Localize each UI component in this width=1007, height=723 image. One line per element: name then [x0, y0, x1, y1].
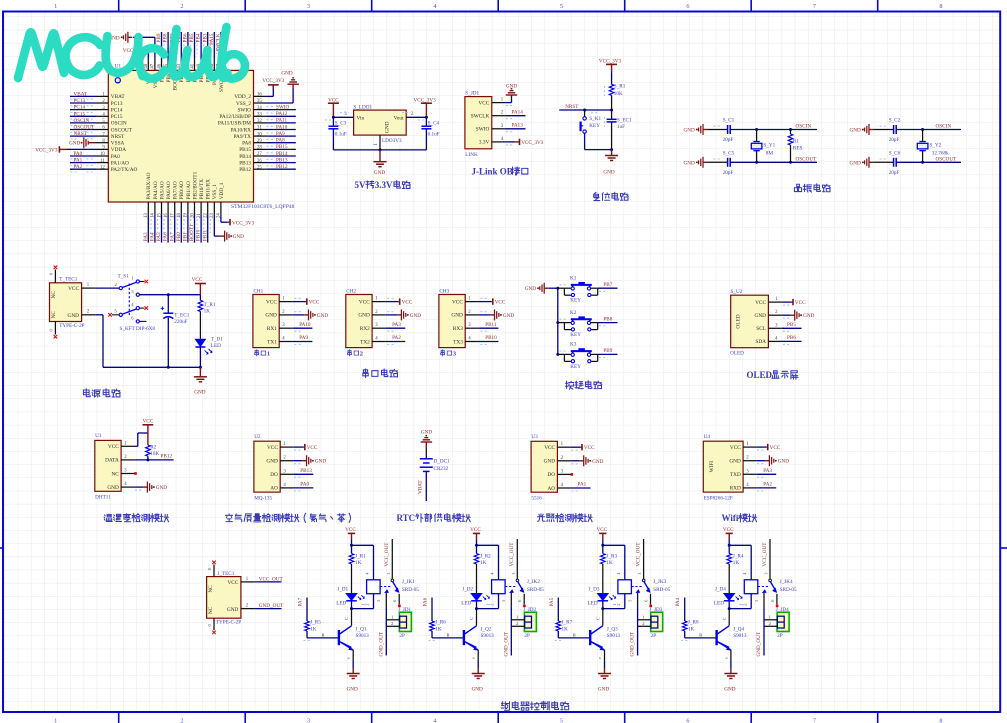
svg-text:PB10/TX: PB10/TX [199, 179, 205, 199]
wire PB9 [598, 353, 618, 355]
svg-text:2: 2 [180, 718, 183, 723]
svg-text:SWIO: SWIO [476, 127, 490, 133]
wire GND_OUT (relay) [510, 593, 512, 606]
svg-text:S_KFT DIP-6X8: S_KFT DIP-6X8 [120, 326, 156, 332]
svg-text:VDDA: VDDA [111, 147, 126, 153]
wire base [431, 598, 433, 622]
svg-text:OLED: OLED [736, 314, 742, 328]
svg-text:DHT11: DHT11 [95, 495, 111, 501]
capacitor S_C2 20pF [873, 129, 893, 131]
wire GND_OUT (relay) [763, 593, 765, 606]
svg-text:CH3: CH3 [439, 289, 449, 295]
svg-text:J_Q3: J_Q3 [607, 627, 618, 633]
svg-text:VCC: VCC [723, 527, 734, 533]
svg-text:GND: GND [525, 286, 536, 292]
svg-text:PC13: PC13 [111, 101, 123, 107]
svg-text:LED: LED [336, 600, 346, 606]
svg-text:GND: GND [598, 687, 609, 693]
wire NO contact dead end [523, 594, 525, 605]
wire [267, 155, 296, 157]
svg-text:3: 3 [307, 3, 310, 10]
ground symbol (J-Link) [511, 88, 513, 90]
svg-text:PA2: PA2 [392, 335, 401, 341]
svg-text:PA4: PA4 [150, 232, 156, 241]
svg-text:B: B [573, 633, 576, 638]
svg-text:VSSA: VSSA [111, 141, 125, 147]
svg-text:CR232: CR232 [434, 466, 449, 472]
svg-text:32.768k: 32.768k [932, 150, 949, 156]
svg-text:SRD-05: SRD-05 [527, 587, 544, 593]
svg-text:0.1uF: 0.1uF [428, 131, 440, 137]
LED J_D3 [598, 594, 609, 601]
svg-text:VCC: VCC [267, 445, 278, 451]
wire [70, 162, 96, 164]
pin2 wire PA14 [492, 115, 506, 117]
wire DATA PB12 [135, 459, 174, 461]
wire PB8 [598, 322, 618, 324]
svg-text:C: C [595, 617, 600, 620]
svg-text:RES: RES [793, 145, 803, 151]
switch blades [122, 282, 136, 287]
ground symbol (CH1) [293, 314, 304, 316]
svg-text:NRST: NRST [111, 134, 125, 140]
svg-text:VCC_OUT: VCC_OUT [509, 542, 515, 567]
svg-text:TYPE-C-2P: TYPE-C-2P [216, 620, 241, 626]
wire [187, 32, 189, 59]
svg-text:PB15: PB15 [276, 144, 288, 150]
svg-text:PC13: PC13 [74, 98, 86, 104]
svg-text:PA11: PA11 [276, 118, 288, 124]
svg-text:S_K1: S_K1 [589, 116, 601, 122]
svg-text:VCC_3V3: VCC_3V3 [521, 140, 544, 146]
title crystal circuit [794, 184, 801, 191]
wire [180, 32, 182, 59]
terminal J_JD2 2P [524, 612, 536, 631]
wire emitter [730, 650, 732, 661]
svg-text:VSS_2: VSS_2 [236, 101, 251, 107]
svg-text:PC15: PC15 [111, 114, 123, 120]
battery D_DC1 CR232 [420, 458, 433, 460]
svg-text:VCC: VCC [755, 300, 766, 306]
svg-text:VCC: VCC [452, 299, 463, 305]
svg-text:GND: GND [385, 121, 391, 133]
power port VCC (DHT11) [147, 425, 149, 445]
wire emitter [352, 650, 354, 661]
svg-text:VCC: VCC [309, 300, 320, 306]
relay contacts [758, 586, 769, 588]
svg-text:PA9: PA9 [276, 131, 285, 137]
svg-text:S_C3: S_C3 [335, 120, 347, 126]
svg-text:DO: DO [547, 472, 555, 478]
svg-text:GND: GND [755, 313, 767, 319]
svg-text:3: 3 [764, 573, 769, 575]
svg-text:GND: GND [265, 313, 277, 319]
svg-text:S_Y1: S_Y1 [763, 143, 775, 149]
wire [167, 32, 169, 59]
svg-text:GND: GND [544, 459, 556, 465]
svg-text:NC: NC [208, 606, 214, 614]
svg-text:RX2: RX2 [360, 326, 370, 332]
svg-text:GND: GND [107, 485, 119, 491]
ground symbol VSS_2 [267, 102, 293, 104]
wire VCC_OUT (relay) [391, 539, 393, 579]
svg-text:PB14: PB14 [239, 154, 251, 160]
svg-text:2: 2 [490, 604, 495, 606]
ground symbol (relay J_Q3) [604, 668, 606, 674]
wire [167, 215, 169, 243]
svg-text:VCC: VCC [108, 444, 119, 450]
wire [187, 215, 189, 243]
wire PA2 [757, 487, 777, 489]
svg-text:J_D2: J_D2 [462, 586, 473, 592]
svg-text:AO: AO [547, 486, 555, 492]
svg-text:VCC: VCC [478, 100, 489, 106]
svg-text:PA7: PA7 [169, 232, 175, 241]
svg-text:GND: GND [684, 128, 695, 134]
wire [267, 122, 296, 124]
wire emitter [477, 650, 479, 661]
svg-text:PB12: PB12 [239, 167, 251, 173]
wire pin1 to VCC via jog [135, 445, 138, 447]
wire [180, 215, 182, 243]
svg-text:KEY: KEY [570, 332, 581, 338]
svg-text:OLED: OLED [730, 350, 744, 356]
svg-text:PB10: PB10 [196, 229, 202, 241]
svg-text:PB3: PB3 [202, 33, 208, 42]
svg-text:J_JK4: J_JK4 [780, 579, 793, 585]
svg-text:VCC: VCC [227, 580, 238, 586]
svg-text:PB0/AO: PB0/AO [179, 181, 185, 199]
svg-text:S_C5: S_C5 [723, 150, 735, 156]
svg-text:PA15: PA15 [209, 33, 215, 45]
svg-text:VBAT: VBAT [418, 480, 424, 494]
ground symbol (power) [199, 367, 201, 377]
svg-text:PB8: PB8 [163, 33, 169, 42]
resistor J_R5 1K [305, 621, 310, 631]
ground symbol (CH3) [479, 314, 490, 316]
svg-text:J_Q4: J_Q4 [733, 627, 744, 633]
svg-text:20pF: 20pF [889, 170, 900, 176]
svg-text:U2: U2 [254, 434, 261, 440]
svg-text:PA12: PA12 [276, 111, 288, 117]
wire OSCOUT [896, 161, 961, 163]
no-connect marks on switch [139, 281, 144, 283]
ground symbol VSS_1 [213, 215, 215, 236]
wire GND_OUT (relay) [385, 593, 387, 606]
no-connect top pin [54, 270, 56, 283]
wire NO contact dead end [776, 594, 778, 605]
svg-text:GND: GND [374, 170, 385, 176]
svg-text:T_S1: T_S1 [118, 273, 130, 279]
wire [70, 122, 96, 124]
wire [161, 32, 163, 59]
svg-text:PB1/AO: PB1/AO [186, 181, 192, 199]
resistor J_R4 1K [728, 545, 730, 553]
svg-text:RXD: RXD [730, 486, 741, 492]
svg-text:PA2/TX/AO: PA2/TX/AO [111, 167, 138, 173]
svg-text:VCC: VCC [795, 300, 806, 306]
power port VCC_3V3 VDDA [67, 148, 96, 150]
pin1 wire to GND [492, 102, 506, 104]
svg-text:GND: GND [281, 71, 292, 77]
svg-text:2: 2 [742, 604, 747, 606]
wire [267, 168, 296, 170]
wire [174, 32, 176, 59]
svg-text:J_JK1: J_JK1 [402, 579, 415, 585]
wire PB6 [782, 340, 802, 342]
wire NO contact dead end [398, 594, 400, 605]
svg-text:J_D1: J_D1 [337, 586, 348, 592]
wire PA2 [386, 341, 406, 343]
svg-text:VDD_1: VDD_1 [219, 182, 225, 199]
svg-text:VCC_OUT: VCC_OUT [762, 542, 768, 567]
svg-text:GND_OUT: GND_OUT [259, 603, 284, 609]
svg-text:MQ-135: MQ-135 [254, 496, 272, 502]
svg-text:5516: 5516 [531, 496, 542, 502]
svg-text:6: 6 [392, 600, 397, 602]
power port VCC_3V3 (reg output) [421, 102, 432, 104]
resistor R1 RES [789, 128, 792, 131]
no-connect bottom [213, 618, 215, 630]
svg-text:OSCOUT: OSCOUT [796, 156, 818, 162]
wire PB11 [479, 327, 499, 329]
svg-text:PB11: PB11 [202, 229, 208, 241]
svg-text:K2: K2 [570, 310, 577, 316]
svg-text:6: 6 [770, 600, 775, 602]
wire [207, 215, 209, 243]
no-ERC mark [571, 473, 574, 476]
svg-text:B: B [447, 633, 450, 638]
svg-text:GND: GND [503, 313, 514, 319]
svg-text:6: 6 [644, 600, 649, 602]
svg-text:e: e [471, 657, 476, 659]
crystal S_Y1 [755, 128, 758, 131]
svg-text:1K: 1K [606, 560, 613, 566]
svg-text:PC14: PC14 [111, 107, 123, 113]
svg-text:3: 3 [307, 718, 310, 723]
svg-text:6: 6 [517, 600, 522, 602]
wire [267, 162, 296, 164]
ground symbol (OLED) [782, 314, 791, 316]
svg-text:GND: GND [451, 313, 463, 319]
wire PA3 [757, 473, 777, 475]
svg-text:Wifi: Wifi [722, 513, 739, 523]
svg-text:7: 7 [813, 718, 816, 723]
svg-text:J_D4: J_D4 [715, 586, 726, 592]
svg-text:S_EC1: S_EC1 [617, 117, 632, 123]
svg-text:3.3V: 3.3V [479, 140, 490, 146]
capacitor S_C5 20pF [707, 161, 727, 163]
svg-text:PB9: PB9 [156, 33, 162, 42]
wire VCC to coil [477, 544, 499, 546]
svg-text:TX1: TX1 [267, 339, 277, 345]
no-connect top [213, 565, 215, 577]
svg-text:PB12: PB12 [276, 164, 288, 170]
MCUclub logo [18, 32, 64, 78]
svg-text:PB6: PB6 [183, 33, 189, 42]
svg-text:GND: GND [506, 83, 517, 89]
svg-text:1: 1 [54, 3, 57, 10]
svg-text:1K: 1K [355, 560, 362, 566]
svg-text:5: 5 [628, 600, 633, 602]
svg-text:GND_OUT: GND_OUT [378, 631, 384, 656]
svg-text:GND: GND [68, 313, 80, 319]
LED J_D4 [724, 594, 735, 601]
svg-text:PB15: PB15 [239, 147, 251, 153]
svg-text:TX3: TX3 [453, 339, 463, 345]
svg-text:OSCIN: OSCIN [74, 118, 90, 124]
svg-text:S_U2: S_U2 [731, 289, 743, 295]
pin4 wire VCC_3V3 [492, 141, 506, 143]
svg-text:PB5: PB5 [787, 322, 796, 328]
svg-text:LED: LED [461, 600, 471, 606]
wire switch to VCC node [139, 294, 200, 296]
svg-text:S_C2: S_C2 [889, 118, 901, 124]
wire [70, 155, 96, 157]
svg-text:PC14: PC14 [74, 105, 86, 111]
wire [585, 149, 612, 151]
svg-text:VCC_3V3: VCC_3V3 [232, 220, 255, 226]
svg-text:J_R5: J_R5 [310, 619, 321, 625]
svg-text:VCC: VCC [143, 419, 154, 425]
resistor S_R1 10K [609, 84, 614, 95]
wire [70, 115, 96, 117]
svg-text:VCC_3V3: VCC_3V3 [262, 78, 285, 84]
power port VCC (CH2) [386, 301, 399, 303]
svg-text:PA1: PA1 [578, 482, 587, 488]
svg-text:PA1: PA1 [74, 158, 83, 164]
svg-text:OSCIN: OSCIN [796, 124, 812, 130]
resistor J_R8 1K [682, 621, 687, 631]
svg-text:VCC: VCC [359, 299, 370, 305]
wire [207, 32, 209, 59]
ground symbol VSS_3 [154, 37, 156, 58]
power port VCC_3V3 VDD_2 [267, 95, 273, 97]
sub label [441, 350, 445, 356]
wire VCC to coil [352, 544, 374, 546]
svg-text:OLED: OLED [747, 370, 773, 380]
svg-text:PA2: PA2 [763, 482, 772, 488]
svg-text:GND: GND [603, 169, 614, 175]
svg-text:VCC: VCC [770, 445, 781, 451]
capacitor S_C4 0.1uF [425, 117, 427, 126]
svg-text:3.3V: 3.3V [375, 180, 393, 190]
relay coil J_JK4 SRD-05 [744, 580, 758, 594]
svg-text:R1: R1 [793, 139, 799, 145]
svg-text:PB6: PB6 [787, 335, 796, 341]
svg-text:1K: 1K [688, 627, 695, 633]
wire base [557, 598, 559, 622]
svg-text:3: 3 [511, 573, 516, 575]
wire PA0 [294, 487, 314, 489]
svg-text:S9013: S9013 [356, 633, 370, 639]
wire [70, 135, 96, 137]
wire pin1 gnd [379, 135, 381, 150]
svg-text:GND: GND [233, 234, 244, 240]
svg-text:KEY: KEY [570, 364, 581, 370]
svg-text:SWIO: SWIO [276, 104, 290, 110]
svg-text:LDO3V3: LDO3V3 [382, 138, 402, 144]
svg-text:T_TEC1: T_TEC1 [59, 276, 78, 282]
power port VCC (OLED) [782, 301, 792, 303]
svg-text:S_C6: S_C6 [889, 150, 901, 156]
relay contacts [505, 586, 516, 588]
svg-text:GND_OUT: GND_OUT [630, 631, 636, 656]
svg-text:PA0: PA0 [74, 151, 83, 157]
resistor R2 10K [146, 445, 151, 456]
svg-text:J_Q2: J_Q2 [481, 627, 492, 633]
svg-text:J_R8: J_R8 [688, 619, 699, 625]
svg-text:2P: 2P [399, 633, 405, 639]
svg-text:GND: GND [803, 313, 814, 319]
svg-text:PA4: PA4 [675, 597, 681, 606]
svg-text:OSCOUT: OSCOUT [111, 127, 133, 133]
wire PA1 [571, 487, 591, 489]
wire [213, 32, 215, 59]
svg-text:1: 1 [267, 350, 270, 357]
svg-text:TXD: TXD [730, 472, 741, 478]
svg-text:1K: 1K [310, 627, 317, 633]
svg-text:220uF: 220uF [174, 319, 187, 325]
svg-text:2: 2 [365, 604, 370, 606]
svg-text:OSCIN: OSCIN [936, 124, 952, 130]
wire VCC to coil [603, 544, 625, 546]
wire VBAT [425, 471, 427, 501]
wire OSCOUT [730, 161, 817, 163]
svg-text:S9013: S9013 [607, 633, 621, 639]
svg-text:VCC: VCC [307, 445, 318, 451]
svg-text:BOOT1: BOOT1 [189, 224, 195, 241]
svg-text:VCC: VCC [266, 299, 277, 305]
svg-text:STM32F103C8T6_LQFP48: STM32F103C8T6_LQFP48 [231, 204, 295, 210]
svg-text:K3: K3 [570, 342, 577, 348]
svg-text:PB4: PB4 [196, 33, 202, 42]
svg-text:PB5: PB5 [189, 33, 195, 42]
svg-text:VBAT: VBAT [74, 91, 88, 97]
svg-text:PA9: PA9 [299, 335, 308, 341]
svg-text:VCC_3V3: VCC_3V3 [35, 147, 58, 153]
svg-text:PA12/USB/DP: PA12/USB/DP [219, 114, 251, 120]
terminal J_JD4 2P [777, 612, 789, 631]
resistor J_R3 1K [602, 545, 604, 553]
svg-text:GND: GND [729, 459, 741, 465]
svg-text:J_D3: J_D3 [589, 586, 600, 592]
wire VCC_OUT (relay) [643, 539, 645, 579]
svg-text:VCC: VCC [68, 286, 79, 292]
svg-text:20pF: 20pF [723, 137, 734, 143]
resistor J_R6 1K [430, 621, 435, 631]
svg-text:PB11: PB11 [485, 322, 497, 328]
svg-text:PA7/AO: PA7/AO [173, 181, 179, 199]
svg-text:KEY: KEY [570, 298, 581, 304]
svg-text:PA3/RX/AO: PA3/RX/AO [146, 172, 152, 199]
svg-text:GND: GND [315, 459, 326, 465]
svg-text:J_R3: J_R3 [606, 554, 617, 560]
resistor J_R7 1K [556, 621, 561, 631]
svg-text:PA4/AO: PA4/AO [153, 181, 159, 199]
svg-text:PB0: PB0 [176, 232, 182, 241]
capacitor S_C6 20pF [873, 161, 893, 163]
svg-text:SRD-05: SRD-05 [402, 587, 419, 593]
wire [154, 215, 156, 243]
svg-text:J_JK3: J_JK3 [653, 579, 666, 585]
svg-text:PA6/AO: PA6/AO [166, 181, 172, 199]
relay contacts [380, 586, 391, 588]
svg-text:PA13: PA13 [512, 123, 524, 129]
svg-text:GND: GND [266, 459, 278, 465]
svg-text:KEY: KEY [589, 123, 600, 129]
svg-text:GND_OUT: GND_OUT [756, 631, 762, 656]
